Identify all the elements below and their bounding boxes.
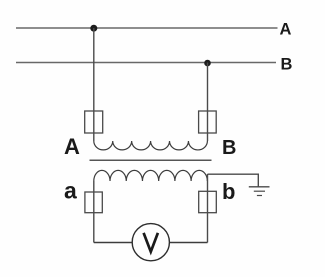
svg-text:A: A (280, 20, 292, 38)
svg-text:B: B (222, 137, 236, 159)
wire from bus A down to fuse FU1 (93, 28, 95, 141)
fuse FU4 (secondary, right) (199, 191, 217, 212)
wire from bus B down to fuse FU2 (207, 63, 209, 142)
wire fuse FU4 down to voltmeter loop (169, 242, 207, 244)
svg-text:A: A (64, 134, 80, 159)
fuse FU1 (primary, left) (85, 111, 103, 133)
ground symbol (249, 187, 270, 196)
primary winding of voltage transformer (94, 141, 208, 150)
svg-text:b: b (222, 179, 235, 204)
svg-text:a: a (64, 178, 77, 204)
transformer core (90, 159, 212, 161)
junction dot on bus B (204, 60, 211, 67)
wire fuse FU3 down to voltmeter loop (94, 242, 132, 244)
voltmeter V circle (132, 224, 169, 261)
fuse FU3 (secondary, left) (85, 192, 102, 213)
fuse FU2 (primary, right) (199, 111, 217, 133)
wire bus line A (16, 27, 278, 29)
voltmeter letter V (144, 233, 158, 252)
svg-text:B: B (281, 56, 293, 74)
wire from terminal b to earth (208, 174, 259, 186)
wire secondary left terminal down to fuse FU3 (93, 181, 95, 243)
junction dot on bus A (90, 25, 97, 32)
wire secondary right terminal down to fuse FU4 (207, 174, 209, 243)
wire bus line B (16, 62, 276, 64)
secondary winding of voltage transformer (94, 170, 208, 181)
